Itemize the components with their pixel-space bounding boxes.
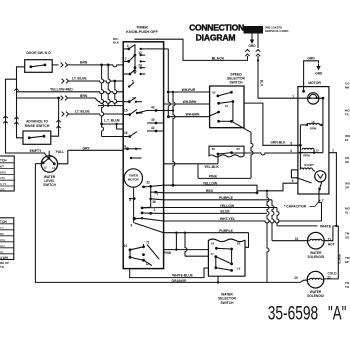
svg-text:L.T. BLUE: L.T. BLUE — [104, 119, 121, 123]
svg-text:WH-PUR: WH-PUR — [182, 88, 196, 92]
svg-text:NN: NN — [345, 86, 349, 90]
svg-text:7: 7 — [125, 57, 127, 61]
svg-text:4 WH: 4 WH — [0, 256, 9, 260]
svg-text:1: 1 — [154, 208, 156, 212]
svg-text:49: 49 — [151, 118, 155, 122]
svg-text:START: START — [304, 163, 314, 167]
svg-text:7: 7 — [157, 193, 159, 197]
wire WH-BRN 2 — [167, 115, 170, 118]
timer contact 7 — [127, 60, 130, 63]
svg-text:WH-BRN: WH-BRN — [183, 100, 197, 104]
svg-text:22: 22 — [295, 237, 299, 241]
svg-text:43: 43 — [151, 106, 155, 110]
svg-text:WH: WH — [0, 238, 5, 242]
svg-text:AL: AL — [0, 250, 4, 254]
wire motor 1 out — [329, 153, 337, 226]
motor left bus — [299, 125, 301, 170]
wire motor 3 row — [232, 153, 298, 155]
left legend table 1 — [0, 156, 14, 191]
svg-text:BK: BK — [0, 232, 4, 236]
svg-text:TY: TY — [0, 226, 4, 230]
wire RED vertical to cold solenoid — [267, 191, 269, 283]
svg-text:BLK: BLK — [260, 80, 264, 87]
motor overload protector — [308, 93, 319, 104]
svg-text:WHITE-BLUE: WHITE-BLUE — [172, 273, 193, 277]
svg-text:DOOR SW. N.O: DOOR SW. N.O — [26, 51, 51, 55]
svg-text:71: 71 — [146, 241, 150, 245]
svg-text:KNOB-PUSH OFF: KNOB-PUSH OFF — [126, 30, 158, 34]
svg-text:GRD: GRD — [248, 44, 256, 48]
svg-text:36: 36 — [152, 200, 156, 204]
svg-text:RINSE SWITCH: RINSE SWITCH — [25, 124, 50, 128]
svg-text:SERVICE CORD: SERVICE CORD — [265, 29, 289, 33]
svg-text:66: 66 — [212, 147, 216, 151]
wire door sw right BRN — [52, 64, 58, 66]
svg-text:26: 26 — [133, 70, 137, 74]
svg-text:61: 61 — [225, 104, 229, 108]
svg-text:SWITCH: SWITCH — [229, 80, 243, 84]
svg-text:PINK: PINK — [163, 251, 171, 255]
timer motor circle — [124, 169, 142, 187]
motor start switch lever — [291, 170, 298, 178]
svg-text:YELLOW-RED: YELLOW-RED — [50, 87, 73, 91]
wire speed selector to pink vertical — [231, 121, 251, 132]
wire pink to water selector 43 — [175, 233, 177, 250]
svg-text:"A": "A" — [328, 303, 346, 324]
wire door sw left to bus — [17, 67, 25, 98]
wire motor 2 bottom — [318, 190, 320, 194]
svg-text:GRY: GRY — [83, 146, 91, 150]
wire grd lead — [251, 33, 253, 38]
svg-text:42: 42 — [151, 126, 155, 130]
wire BLK to motor — [258, 56, 298, 98]
timer contact 27 — [128, 100, 131, 103]
svg-text:TO: TO — [345, 285, 350, 289]
svg-text:EMPTY: EMPTY — [30, 149, 42, 153]
motor centrifugal switch — [315, 171, 326, 182]
wire BLACK net — [134, 39, 247, 60]
svg-text:TS: TS — [0, 265, 4, 269]
left legend table 2 — [0, 218, 14, 260]
wire motor 2 lead — [319, 194, 322, 221]
motor 5 row inside — [298, 144, 301, 146]
wire BRN 2 — [17, 97, 59, 99]
svg-text:27: 27 — [132, 96, 136, 100]
timer contact 42 — [147, 130, 164, 132]
svg-text:BRN: BRN — [0, 170, 6, 174]
svg-text:15: 15 — [124, 108, 128, 112]
svg-text:GRN-BLK: GRN-BLK — [270, 141, 286, 145]
svg-text:BLACK: BLACK — [212, 57, 225, 61]
wire 43 to vertical 173 — [173, 92, 175, 185]
svg-text:LT. BLUE: LT. BLUE — [72, 76, 87, 80]
svg-text:SWITCH: SWITCH — [43, 183, 56, 187]
timer contact 49 — [147, 122, 164, 124]
svg-text:RPM: RPM — [310, 127, 317, 131]
svg-text:LT. BLUE: LT. BLUE — [75, 109, 90, 113]
svg-text:BRN: BRN — [80, 94, 88, 98]
svg-text:16: 16 — [124, 131, 128, 135]
svg-text:DIAGRAM: DIAGRAM — [196, 33, 236, 43]
svg-text:4: 4 — [127, 44, 129, 48]
svg-text:WH-BRN: WH-BRN — [186, 113, 200, 117]
svg-text:GN: GN — [0, 244, 5, 248]
wire to water selector 17 — [185, 233, 187, 257]
svg-text:SWITCH: SWITCH — [220, 301, 234, 305]
wire GRN-BLK speed selector to motor 5 — [244, 103, 298, 145]
wire WHITE row — [277, 225, 318, 227]
svg-text:62: 62 — [212, 90, 216, 94]
svg-text:20: 20 — [294, 276, 298, 280]
svg-text:ADVANCE TO: ADVANCE TO — [26, 119, 48, 123]
svg-text:MOTOR: MOTOR — [308, 81, 321, 85]
svg-text:SOLENOID: SOLENOID — [307, 294, 324, 298]
svg-text:ORANGE: ORANGE — [172, 279, 188, 283]
svg-text:SOLENOID: SOLENOID — [307, 255, 324, 259]
svg-text:43: 43 — [211, 242, 215, 246]
wire row into timer 105.6 — [98, 105, 123, 107]
svg-text:35-6598: 35-6598 — [268, 303, 319, 324]
timer box — [123, 42, 163, 269]
motor right bus — [322, 98, 324, 153]
vertical bus x=101.6 — [102, 65, 104, 137]
svg-text:SP: SP — [345, 186, 349, 190]
timer contact 26 — [129, 73, 132, 76]
timer node 9 — [133, 217, 136, 220]
wire WHITE vertical to cold 21 — [324, 226, 339, 279]
wire rinse sw right — [51, 98, 59, 136]
motor LO RPM winding — [302, 148, 314, 149]
hot water solenoid — [308, 232, 325, 249]
wire motor 6 inside — [298, 182, 312, 184]
speed selector aux contact box 66/65 — [209, 146, 244, 157]
motor 3 row inside — [298, 152, 323, 154]
svg-text:21: 21 — [328, 237, 332, 241]
svg-text:32: 32 — [146, 181, 150, 185]
svg-text:KT: KT — [0, 165, 4, 169]
svg-text:13: 13 — [315, 149, 319, 153]
svg-text:3: 3 — [290, 149, 292, 153]
vertical bus x=114.8 — [115, 81, 117, 106]
svg-text:TCH: TCH — [0, 158, 7, 162]
connector chevrons below terminal block — [245, 50, 249, 52]
svg-text:5: 5 — [290, 142, 292, 146]
svg-text:MOTOR: MOTOR — [128, 177, 140, 181]
svg-text:COLD: COLD — [327, 271, 337, 275]
wire L1 lead — [257, 33, 259, 48]
wire WH-BRN 1 — [164, 103, 210, 105]
svg-text:GYS: GYS — [0, 182, 6, 186]
speed selector box — [210, 86, 244, 128]
timer contact bus 12/24 — [134, 45, 136, 74]
svg-text:SL: SL — [345, 211, 349, 215]
timer contact 4 — [127, 48, 130, 51]
svg-text:18: 18 — [237, 242, 241, 246]
wire level sw top stub — [48, 151, 50, 156]
svg-text:KL: KL — [345, 138, 349, 142]
svg-text:GRD: GRD — [315, 71, 323, 75]
svg-text:PINK: PINK — [209, 174, 218, 178]
svg-text:6: 6 — [292, 179, 294, 183]
svg-text:1: 1 — [332, 148, 334, 152]
water selector box — [208, 239, 245, 276]
svg-text:BLK: BLK — [113, 41, 120, 45]
wire row into timer 129 — [117, 124, 124, 129]
svg-text:FULL: FULL — [56, 150, 65, 154]
svg-text:YEL-BLK: YEL-BLK — [204, 165, 219, 169]
wire level sw FULL to GRY row — [58, 150, 68, 164]
svg-text:61: 61 — [123, 144, 127, 148]
svg-text:TCH: TCH — [0, 220, 7, 224]
terminal block TB1 — [244, 27, 263, 34]
motor box — [298, 87, 329, 194]
timer contact 43 — [137, 111, 147, 114]
svg-text:9: 9 — [131, 224, 133, 228]
svg-text:HOT: HOT — [328, 242, 335, 246]
svg-text:LBL: LBL — [0, 176, 6, 180]
svg-text:CONNECTION: CONNECTION — [189, 23, 244, 33]
svg-text:19: 19 — [237, 266, 241, 270]
svg-text:AD: AD — [345, 236, 350, 240]
timer fixed contact stubs — [141, 48, 146, 50]
wire WH-PUR — [145, 48, 168, 50]
svg-text:21: 21 — [327, 275, 331, 279]
svg-text:WHITE: WHITE — [338, 254, 342, 264]
svg-text:10: 10 — [124, 244, 128, 248]
svg-text:2: 2 — [322, 198, 324, 202]
vertical bus x=108.2 — [108, 65, 110, 106]
svg-text:RPM: RPM — [303, 153, 310, 157]
svg-text:17: 17 — [211, 252, 215, 256]
svg-text:7: 7 — [292, 95, 294, 99]
motor HI RPM winding — [300, 124, 307, 126]
wire level sw left to long vertical WHITE-BLUE/ORANGE run — [35, 164, 267, 283]
wire water selector bottom stub — [217, 276, 219, 282]
svg-text:65: 65 — [237, 147, 241, 151]
cold water solenoid — [307, 271, 324, 288]
svg-text:GRN: GRN — [307, 56, 315, 60]
svg-text:BRN: BRN — [80, 61, 88, 65]
wire rinse sw left — [17, 98, 24, 138]
svg-text:SE: SE — [345, 160, 349, 164]
svg-text:WHITE: WHITE — [320, 224, 332, 228]
wire GRN to GRD — [304, 61, 319, 92]
svg-text:* CAPACITOR: * CAPACITOR — [284, 205, 307, 209]
svg-text:SP: SP — [345, 260, 349, 264]
svg-text:HI: HI — [312, 120, 315, 124]
chevrons on left verticals — [3, 116, 7, 118]
